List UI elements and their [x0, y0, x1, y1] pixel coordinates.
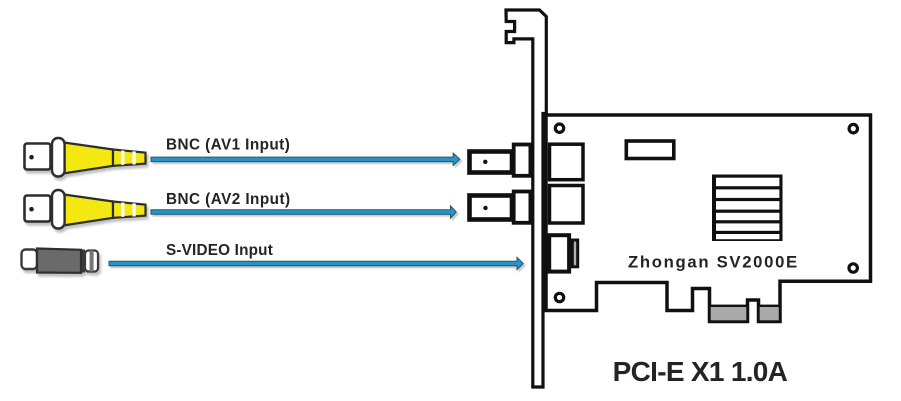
svg-text:BNC (AV2 Input): BNC (AV2 Input) — [166, 191, 290, 208]
svg-text:BNC (AV1 Input): BNC (AV1 Input) — [166, 136, 290, 153]
svg-text:PCI-E X1 1.0A: PCI-E X1 1.0A — [613, 356, 788, 387]
svg-text:Zhongan SV2000E: Zhongan SV2000E — [628, 252, 797, 271]
svg-text:S-VIDEO Input: S-VIDEO Input — [166, 242, 273, 259]
